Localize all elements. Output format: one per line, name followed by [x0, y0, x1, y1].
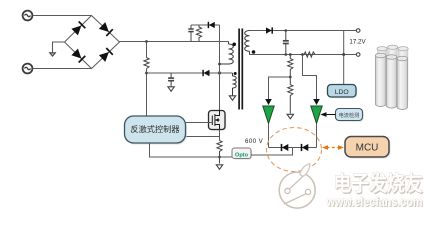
secondary bottom rail	[250, 54, 357, 56]
DC+ rail	[120, 41, 229, 43]
transformer secondary winding	[245, 31, 250, 55]
transformer aux winding	[233, 73, 237, 96]
svg-text:17.2V: 17.2V	[349, 39, 366, 46]
MOSFET Q1 box	[210, 112, 227, 131]
resistor R1 (startup)	[144, 58, 149, 69]
arrow into LED1	[265, 99, 272, 105]
ground arrow (aux)	[229, 96, 235, 101]
diode D9 (cathode left)	[302, 144, 309, 151]
wire LED2 down	[316, 124, 318, 148]
arrow into LED2	[313, 99, 320, 105]
svg-text:600 V: 600 V	[245, 138, 264, 145]
wire clamp/drain vertical	[219, 25, 221, 111]
node LED branch	[289, 76, 292, 79]
ground arrow (VCC cap)	[168, 87, 174, 92]
ground arrow (divider)	[287, 114, 293, 119]
wire + resistor R5 string	[288, 55, 293, 85]
wire right LED branch	[303, 55, 317, 100]
snubber top rail	[191, 24, 220, 26]
wire CS sense	[185, 136, 220, 138]
current sense box	[337, 110, 364, 122]
diode D7 (output rectifier)	[266, 27, 272, 33]
node drain/aux crossing dot	[218, 71, 221, 74]
svg-text:www.elecfans.com: www.elecfans.com	[326, 194, 423, 209]
node VCC/aux junction	[145, 72, 148, 75]
wire left LED branch	[269, 77, 291, 100]
polarity dot primary	[232, 43, 236, 47]
wire LED1 down	[268, 124, 270, 148]
terminal return	[356, 53, 360, 57]
wire source down	[219, 130, 221, 141]
polarity dot secondary	[252, 50, 256, 54]
LED1 (left string, green)	[263, 106, 274, 124]
bridge diode D2 (top-right arm)	[99, 22, 113, 36]
dashed highlight ellipse	[267, 128, 322, 172]
svg-text:反激式控制器: 反激式控制器	[130, 124, 179, 134]
earth symbol	[50, 53, 56, 56]
wire controller FB bottom	[150, 143, 220, 157]
wire sense to opto	[220, 156, 233, 158]
wire LED return row	[269, 147, 317, 149]
snubber resistor R2	[196, 25, 201, 42]
MCU U4 box	[347, 138, 391, 159]
LED2 (right string, green)	[311, 106, 322, 124]
wire top AC to bridge	[33, 15, 92, 17]
secondary top rail	[250, 30, 357, 32]
diode D8 (cathode left)	[282, 144, 289, 151]
bridge rectifier diamond wires	[65, 16, 120, 69]
bridge diode D1 (left-top arm)	[71, 22, 85, 36]
diode D6 (clamp, cathode left)	[208, 22, 214, 28]
AC source V2	[23, 64, 33, 74]
svg-text:电流检测: 电流检测	[339, 111, 360, 119]
wire aux/VCC horizontal	[147, 72, 233, 74]
bridge diode D3 (left-bottom arm)	[71, 49, 85, 63]
dashed link arrow to MCU	[327, 147, 341, 149]
battery pack	[376, 45, 409, 109]
earth wire from bridge left corner	[53, 42, 65, 53]
watermark logo	[279, 164, 315, 209]
wire gate	[185, 122, 212, 124]
svg-text:MCU: MCU	[356, 143, 379, 154]
resistor R6 lower	[288, 85, 293, 114]
diode D5 (aux rectifier, cathode left)	[203, 70, 209, 76]
node ballast string top	[289, 53, 292, 56]
transformer T1 primary winding	[220, 42, 234, 65]
capacitor C1 (VCC cap)	[168, 73, 174, 87]
arrow detect to LED2	[326, 114, 336, 116]
flyback controller U1 box	[126, 118, 187, 145]
terminal + output	[356, 29, 360, 33]
wire LDO input	[343, 31, 345, 85]
transformer core	[239, 29, 242, 110]
wire bottom AC to bridge	[33, 68, 92, 70]
snubber capacitor C2	[188, 25, 193, 42]
AC source V1	[23, 11, 33, 21]
capacitor C3 (output)	[283, 31, 289, 55]
svg-text:LDO: LDO	[335, 89, 349, 96]
resistor R3 (sense)	[217, 141, 222, 164]
bridge diode D4 (bottom-right arm)	[99, 48, 113, 62]
optocoupler U2 box	[233, 149, 252, 160]
ground arrow (sense)	[216, 165, 222, 170]
LDO U3 box	[329, 86, 358, 99]
polarity dot aux	[234, 72, 237, 75]
node winding bottom	[218, 63, 221, 66]
wire VCC vertical	[146, 42, 148, 116]
resistor R4 (on rail, horizontal)	[304, 52, 315, 57]
node sense/opto junction	[218, 156, 221, 159]
MOSFET Q1 symbol	[212, 111, 219, 130]
svg-text:Opto: Opto	[235, 152, 249, 158]
wire opto to diode row	[251, 148, 293, 156]
svg-text:电子发烧友: 电子发烧友	[334, 172, 423, 196]
node: rail to controller branch	[145, 40, 148, 43]
